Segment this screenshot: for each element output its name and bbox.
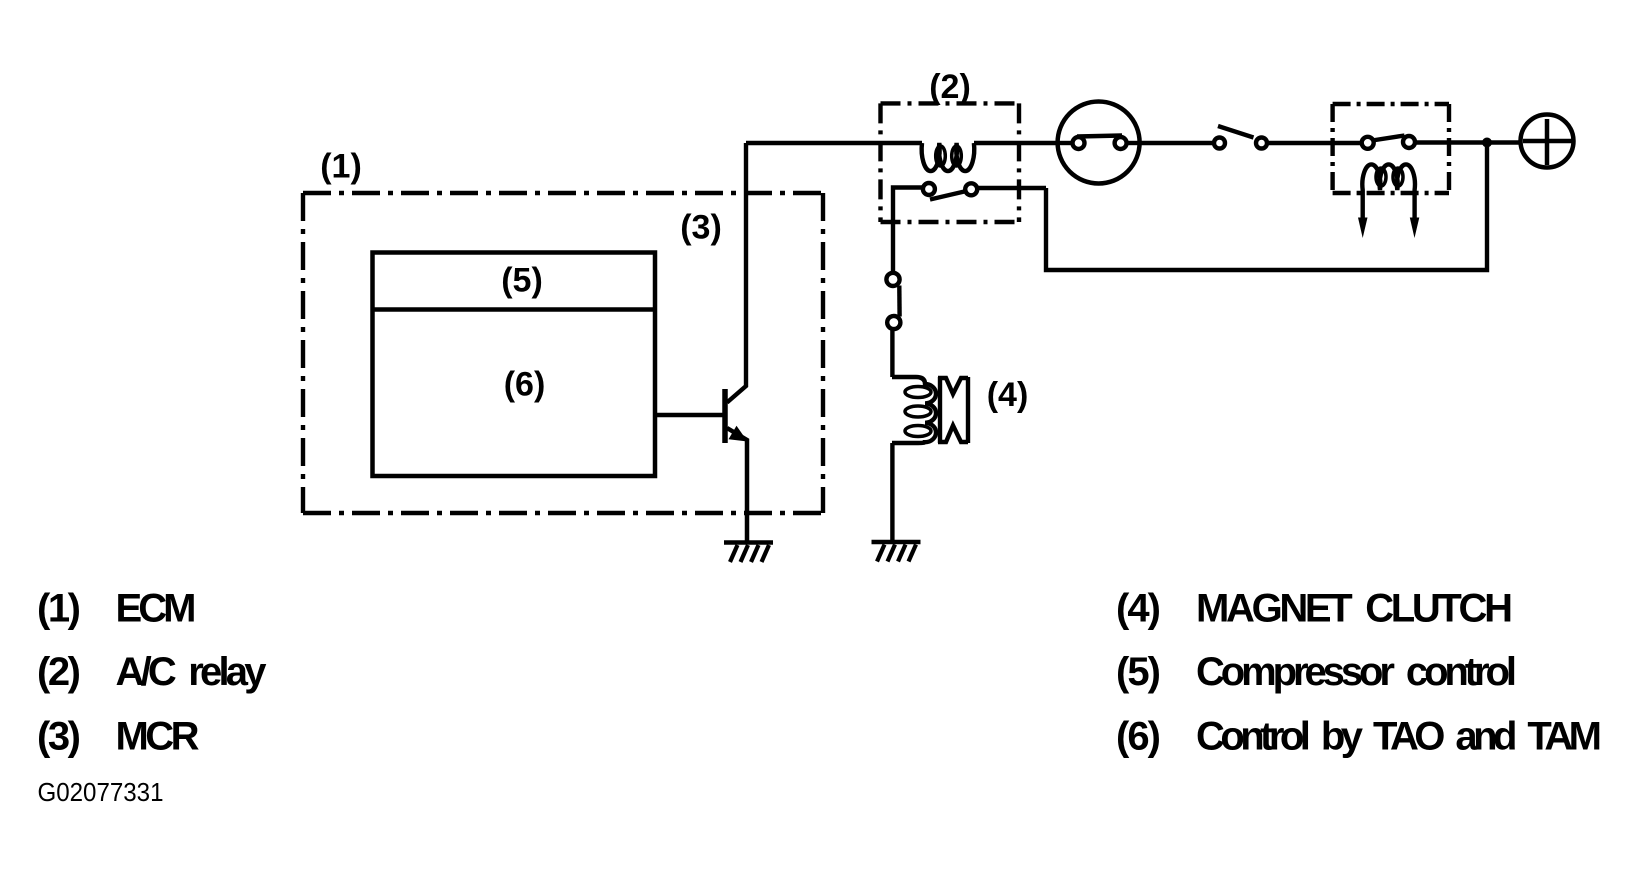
svg-text:Control by TAO and TAM: Control by TAO and TAM: [1196, 715, 1602, 759]
svg-text:(2): (2): [37, 650, 81, 694]
svg-text:(6): (6): [504, 366, 546, 404]
svg-text:(3): (3): [680, 208, 722, 246]
svg-text:ECM: ECM: [116, 587, 197, 631]
svg-text:(4): (4): [1116, 587, 1161, 631]
svg-text:G02077331: G02077331: [38, 777, 164, 807]
svg-text:(2): (2): [929, 68, 971, 106]
svg-text:(5): (5): [501, 261, 543, 299]
svg-text:Compressor control: Compressor control: [1196, 650, 1517, 694]
svg-text:(3): (3): [37, 715, 81, 759]
svg-text:(4): (4): [987, 376, 1029, 414]
svg-text:(6): (6): [1116, 715, 1161, 759]
svg-text:(1): (1): [37, 587, 81, 631]
svg-text:MCR: MCR: [116, 715, 200, 759]
svg-text:A/C relay: A/C relay: [116, 650, 268, 694]
svg-text:MAGNET CLUTCH: MAGNET CLUTCH: [1196, 587, 1513, 631]
svg-text:(1): (1): [320, 148, 362, 186]
svg-text:(5): (5): [1116, 650, 1161, 694]
